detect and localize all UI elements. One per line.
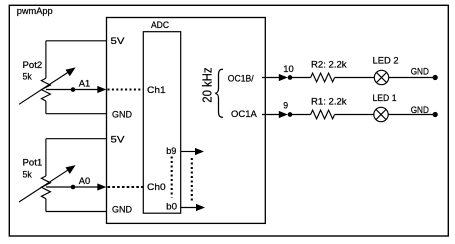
svg-text:A0: A0	[79, 176, 90, 187]
brace	[215, 69, 223, 117]
node A1	[71, 87, 76, 92]
wire GND top rail	[46, 113, 107, 115]
resistor R1	[311, 110, 335, 119]
wire b9 out	[181, 151, 196, 153]
MCU block	[107, 18, 266, 224]
wire pin9 to R1	[290, 114, 311, 116]
wire Pot2 bottom vertical	[45, 101, 47, 114]
LED1	[374, 107, 388, 121]
dotted bus ellipsis inner	[171, 157, 173, 198]
svg-text:OC1B/: OC1B/	[228, 74, 254, 85]
LED2	[374, 70, 388, 84]
wire Pot2 top vertical	[45, 41, 47, 79]
wiper arrow Pot2	[19, 72, 69, 104]
wiper arrow Pot1	[19, 170, 69, 202]
svg-text:Pot2: Pot2	[23, 60, 43, 71]
wire A0 to MCU	[46, 186, 98, 188]
svg-text:A1: A1	[79, 79, 90, 90]
wire Pot1 top vertical	[45, 139, 47, 176]
wire Pot1 bottom vertical	[45, 199, 47, 212]
svg-text:LED 1: LED 1	[373, 93, 397, 104]
potentiometer Pot2 zigzag	[41, 78, 50, 101]
ADC block	[143, 32, 180, 214]
svg-text:GND: GND	[411, 105, 429, 116]
wire OC1A to pin 9	[262, 114, 280, 116]
svg-text:Pot1: Pot1	[23, 158, 43, 169]
potentiometer Pot1 zigzag	[41, 176, 50, 199]
svg-text:20 kHz: 20 kHz	[200, 68, 215, 103]
svg-text:9: 9	[283, 100, 288, 110]
wire GND bottom rail	[46, 211, 107, 213]
svg-text:LED 2: LED 2	[373, 55, 399, 66]
svg-text:GND: GND	[112, 110, 132, 121]
svg-text:ADC: ADC	[151, 20, 169, 31]
wire pin10 to R2	[290, 77, 311, 79]
wire LED1 to GND	[388, 114, 435, 116]
node A0	[71, 185, 76, 190]
ground node (top)	[433, 75, 438, 80]
dotted bus ellipsis outer	[191, 158, 193, 203]
svg-text:b9: b9	[166, 146, 176, 157]
svg-text:GND: GND	[411, 66, 429, 77]
svg-text:5V: 5V	[111, 36, 126, 47]
svg-text:b0: b0	[166, 201, 177, 212]
svg-text:pwmApp: pwmApp	[17, 6, 53, 17]
svg-text:OC1A: OC1A	[231, 109, 257, 120]
wire b0 out	[181, 207, 197, 209]
svg-text:R1: 2.2k: R1: 2.2k	[311, 97, 347, 108]
svg-text:GND: GND	[112, 204, 132, 215]
svg-text:5k: 5k	[23, 71, 32, 82]
wire A1 to MCU	[46, 89, 98, 91]
resistor R2	[311, 73, 335, 82]
node pin 10	[288, 75, 293, 80]
wire OC1B to pin 10	[262, 77, 280, 79]
wire LED2 to GND	[389, 77, 435, 79]
svg-text:Ch1: Ch1	[147, 85, 166, 96]
ground node (bottom)	[433, 112, 438, 117]
wire R1 to LED1	[335, 114, 375, 116]
pin 9 arrow	[279, 111, 288, 118]
svg-text:5V: 5V	[111, 135, 126, 146]
svg-text:10: 10	[283, 64, 294, 74]
svg-text:5k: 5k	[23, 169, 32, 180]
svg-text:Ch0: Ch0	[147, 182, 166, 193]
node pin 9	[288, 112, 293, 117]
wire R2 to LED2	[335, 77, 375, 79]
dotted wire Ch0	[108, 186, 144, 188]
wire 5V top rail	[46, 40, 107, 42]
wire 5V bottom rail	[46, 138, 107, 140]
dotted wire Ch1	[108, 88, 144, 90]
pin 10 arrow	[279, 74, 288, 81]
svg-text:R2: 2.2k: R2: 2.2k	[311, 60, 347, 71]
